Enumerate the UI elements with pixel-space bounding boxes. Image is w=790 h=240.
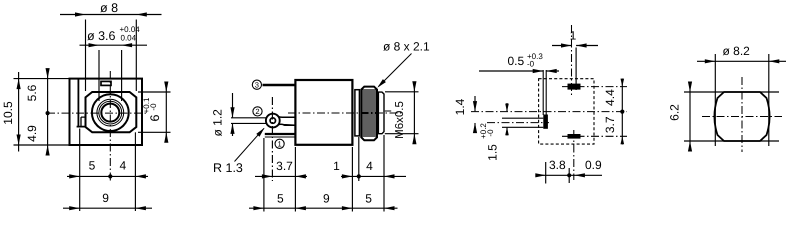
dim line dia8 [60, 14, 162, 16]
dim line 5.6/4.9 [47, 69, 49, 155]
ext lines 6.2 [684, 92, 779, 141]
arrows 1.5 outside [505, 104, 509, 112]
svg-text:6: 6 [148, 114, 162, 121]
nut barrel outline [714, 92, 769, 141]
arrows dia8.2 outside [705, 59, 716, 63]
lug2 arm centerline [487, 122, 549, 124]
ext bushing end [383, 135, 385, 212]
ext washer right [358, 137, 360, 181]
lug2 solder tab black [543, 115, 548, 129]
arrows 5.6 4.9 outside [46, 68, 50, 79]
dim rows bottom view3 [536, 174, 602, 176]
svg-text:-0: -0 [527, 60, 535, 69]
dim line dia3.6 [80, 44, 148, 46]
knurl hatching [362, 90, 376, 136]
svg-text:ø 8: ø 8 [100, 1, 118, 15]
terminal 1 pad black [568, 134, 581, 139]
dim row1 segments view2 [255, 175, 406, 177]
vertical centerline view3 [571, 25, 573, 97]
arrows row2: left outside [253, 206, 264, 210]
svg-text:ø 8 x 2.1: ø 8 x 2.1 [383, 40, 430, 54]
arrows 6.2 outside [688, 82, 692, 93]
junction dot row1 view1 [108, 174, 112, 178]
sleeve stub line [385, 110, 391, 112]
hidden body outline dashed [539, 79, 594, 144]
svg-text:R 1.3: R 1.3 [213, 161, 243, 175]
svg-text:5: 5 [365, 192, 372, 206]
svg-text:1: 1 [570, 29, 577, 43]
svg-text:4: 4 [366, 159, 373, 173]
terminal lug 1 [265, 133, 295, 135]
svg-text:4.9: 4.9 [25, 125, 39, 142]
svg-text:ø 3.6: ø 3.6 [87, 29, 116, 43]
ring circle thin [97, 99, 124, 126]
svg-text:5.6: 5.6 [25, 84, 39, 101]
terminal lug 2 arm [278, 117, 295, 126]
arrows M6 outside [412, 81, 416, 92]
dim row2 view2 [249, 207, 398, 209]
arrows 0.5 outside [533, 69, 544, 73]
svg-text:ø 1.2: ø 1.2 [211, 109, 225, 137]
svg-text:2: 2 [255, 107, 259, 116]
svg-text:3: 3 [255, 81, 259, 90]
arrows 4.4/3.7 [621, 79, 625, 87]
axis centerline horizontal view3 [471, 111, 627, 113]
arrows 10.5 inside [17, 79, 21, 90]
arrows dia1.2 outside [230, 107, 234, 118]
leader dia8x2.1 [379, 54, 412, 87]
terminal 3 pad black [568, 84, 581, 90]
row2 inside arrows at body [295, 206, 306, 210]
collar circle outer [92, 94, 129, 131]
svg-text:3.7: 3.7 [276, 159, 293, 173]
ext lines dia1.2 [231, 118, 268, 124]
svg-text:1.4: 1.4 [453, 98, 467, 115]
dim line 1.4 [474, 96, 476, 130]
arrows row1 view1 [69, 174, 80, 178]
arrows 1 outside [561, 43, 572, 47]
circled terminal number 3 [252, 80, 284, 148]
svg-text:1.5: 1.5 [486, 144, 500, 161]
svg-text:0.04: 0.04 [121, 33, 137, 42]
svg-text:1: 1 [277, 140, 281, 149]
ext line 3.8 junction [568, 168, 570, 183]
junction dot 5.6/4.9 [46, 111, 50, 115]
terminal column centerline [573, 130, 575, 180]
row2 right outside [384, 206, 395, 210]
centerline axis view2 [288, 112, 402, 114]
dim row2 view1 [63, 207, 152, 209]
eyelet hole 1.2 [270, 118, 275, 123]
centerline vertical view4 [741, 77, 743, 152]
dim line dia1.2 [232, 93, 234, 136]
svg-text:1: 1 [333, 159, 340, 173]
arrows 3.7 outside [262, 174, 273, 178]
svg-text:-0: -0 [149, 103, 158, 111]
svg-text:9: 9 [323, 192, 330, 206]
svg-text:0.5: 0.5 [508, 54, 525, 68]
dim line 10.5 [18, 72, 20, 152]
svg-text:9: 9 [102, 191, 109, 205]
arrow 1 left outside [342, 174, 353, 178]
svg-text:5: 5 [89, 159, 96, 173]
dim row1 view1 [67, 175, 148, 177]
leader R 1.3 [235, 128, 265, 161]
svg-text:0.9: 0.9 [585, 158, 602, 172]
svg-text:6.2: 6.2 [667, 104, 681, 121]
junction dot row1 [357, 174, 361, 178]
circled terminal number 1 [275, 139, 284, 148]
left ext lines [14, 79, 70, 145]
body outline square [70, 79, 143, 145]
arrows dia8 [75, 12, 86, 16]
arrow 4 right outside [384, 174, 395, 178]
ext lines dia8.2 [715, 54, 769, 146]
lug2 edge-on double line [543, 70, 546, 115]
threaded bushing [378, 92, 384, 134]
circled terminal number 2 [253, 107, 262, 116]
ext body left bottom [294, 147, 296, 212]
centerline vertical view1 [109, 71, 111, 181]
arrows row2 view1 [69, 206, 80, 210]
top tab slot [101, 81, 111, 85]
interior seam line right below bezel [134, 132, 136, 144]
M6 dim line [413, 83, 415, 143]
ext lug1 end [263, 138, 265, 212]
interior pocket left of bezel [77, 80, 86, 127]
eyelet center ext vertical [271, 97, 273, 181]
svg-text:4: 4 [120, 159, 127, 173]
terminal1 row centerline [562, 135, 627, 137]
arrows 1.4 outside [473, 101, 477, 112]
ext line lug column bottom [545, 162, 547, 184]
terminal3 row centerline [562, 86, 627, 88]
dim line dia8.2 [697, 60, 786, 62]
right ext lines 6 [138, 92, 171, 132]
arrows 6 outside [164, 82, 168, 93]
washer [355, 90, 360, 136]
hole circle 3.6 [99, 101, 122, 124]
dim line 4.4/3.7 [621, 79, 623, 145]
ext body right bottom [351, 147, 353, 212]
svg-text:-0: -0 [486, 129, 495, 137]
bezel octagon [86, 92, 137, 132]
body rectangle [295, 80, 352, 145]
bottom ext lines view1 [80, 129, 136, 212]
dim line 0.5 [479, 70, 559, 72]
terminal lug 3 [263, 84, 296, 87]
arrows bottom row view3 [535, 173, 546, 177]
svg-text:3.7: 3.7 [603, 116, 617, 133]
dim line 6 [165, 84, 167, 142]
dim line 1.5 [506, 103, 508, 136]
centerline horizontal view1 [47, 112, 147, 114]
centerline horizontal view4 [702, 116, 782, 118]
arrows dia3.6 [89, 43, 100, 47]
terminal3 edge ext solid [575, 48, 577, 91]
dim line 6.2 [689, 85, 691, 149]
eyelet outer [266, 114, 280, 128]
ext lines dia3.6 [99, 50, 122, 101]
lug2 arm lines [502, 118, 543, 127]
bore circle inner [101, 104, 119, 122]
M6 ext lines [385, 92, 419, 134]
ext lines dia8 [86, 20, 137, 92]
svg-text:4.4: 4.4 [603, 89, 617, 106]
svg-text:10.5: 10.5 [1, 101, 15, 125]
svg-text:3.8: 3.8 [549, 158, 566, 172]
svg-text:5: 5 [277, 192, 284, 206]
dim line 1 [552, 45, 598, 47]
svg-text:ø 8.2: ø 8.2 [723, 44, 751, 58]
knurled nut outline [361, 87, 377, 141]
